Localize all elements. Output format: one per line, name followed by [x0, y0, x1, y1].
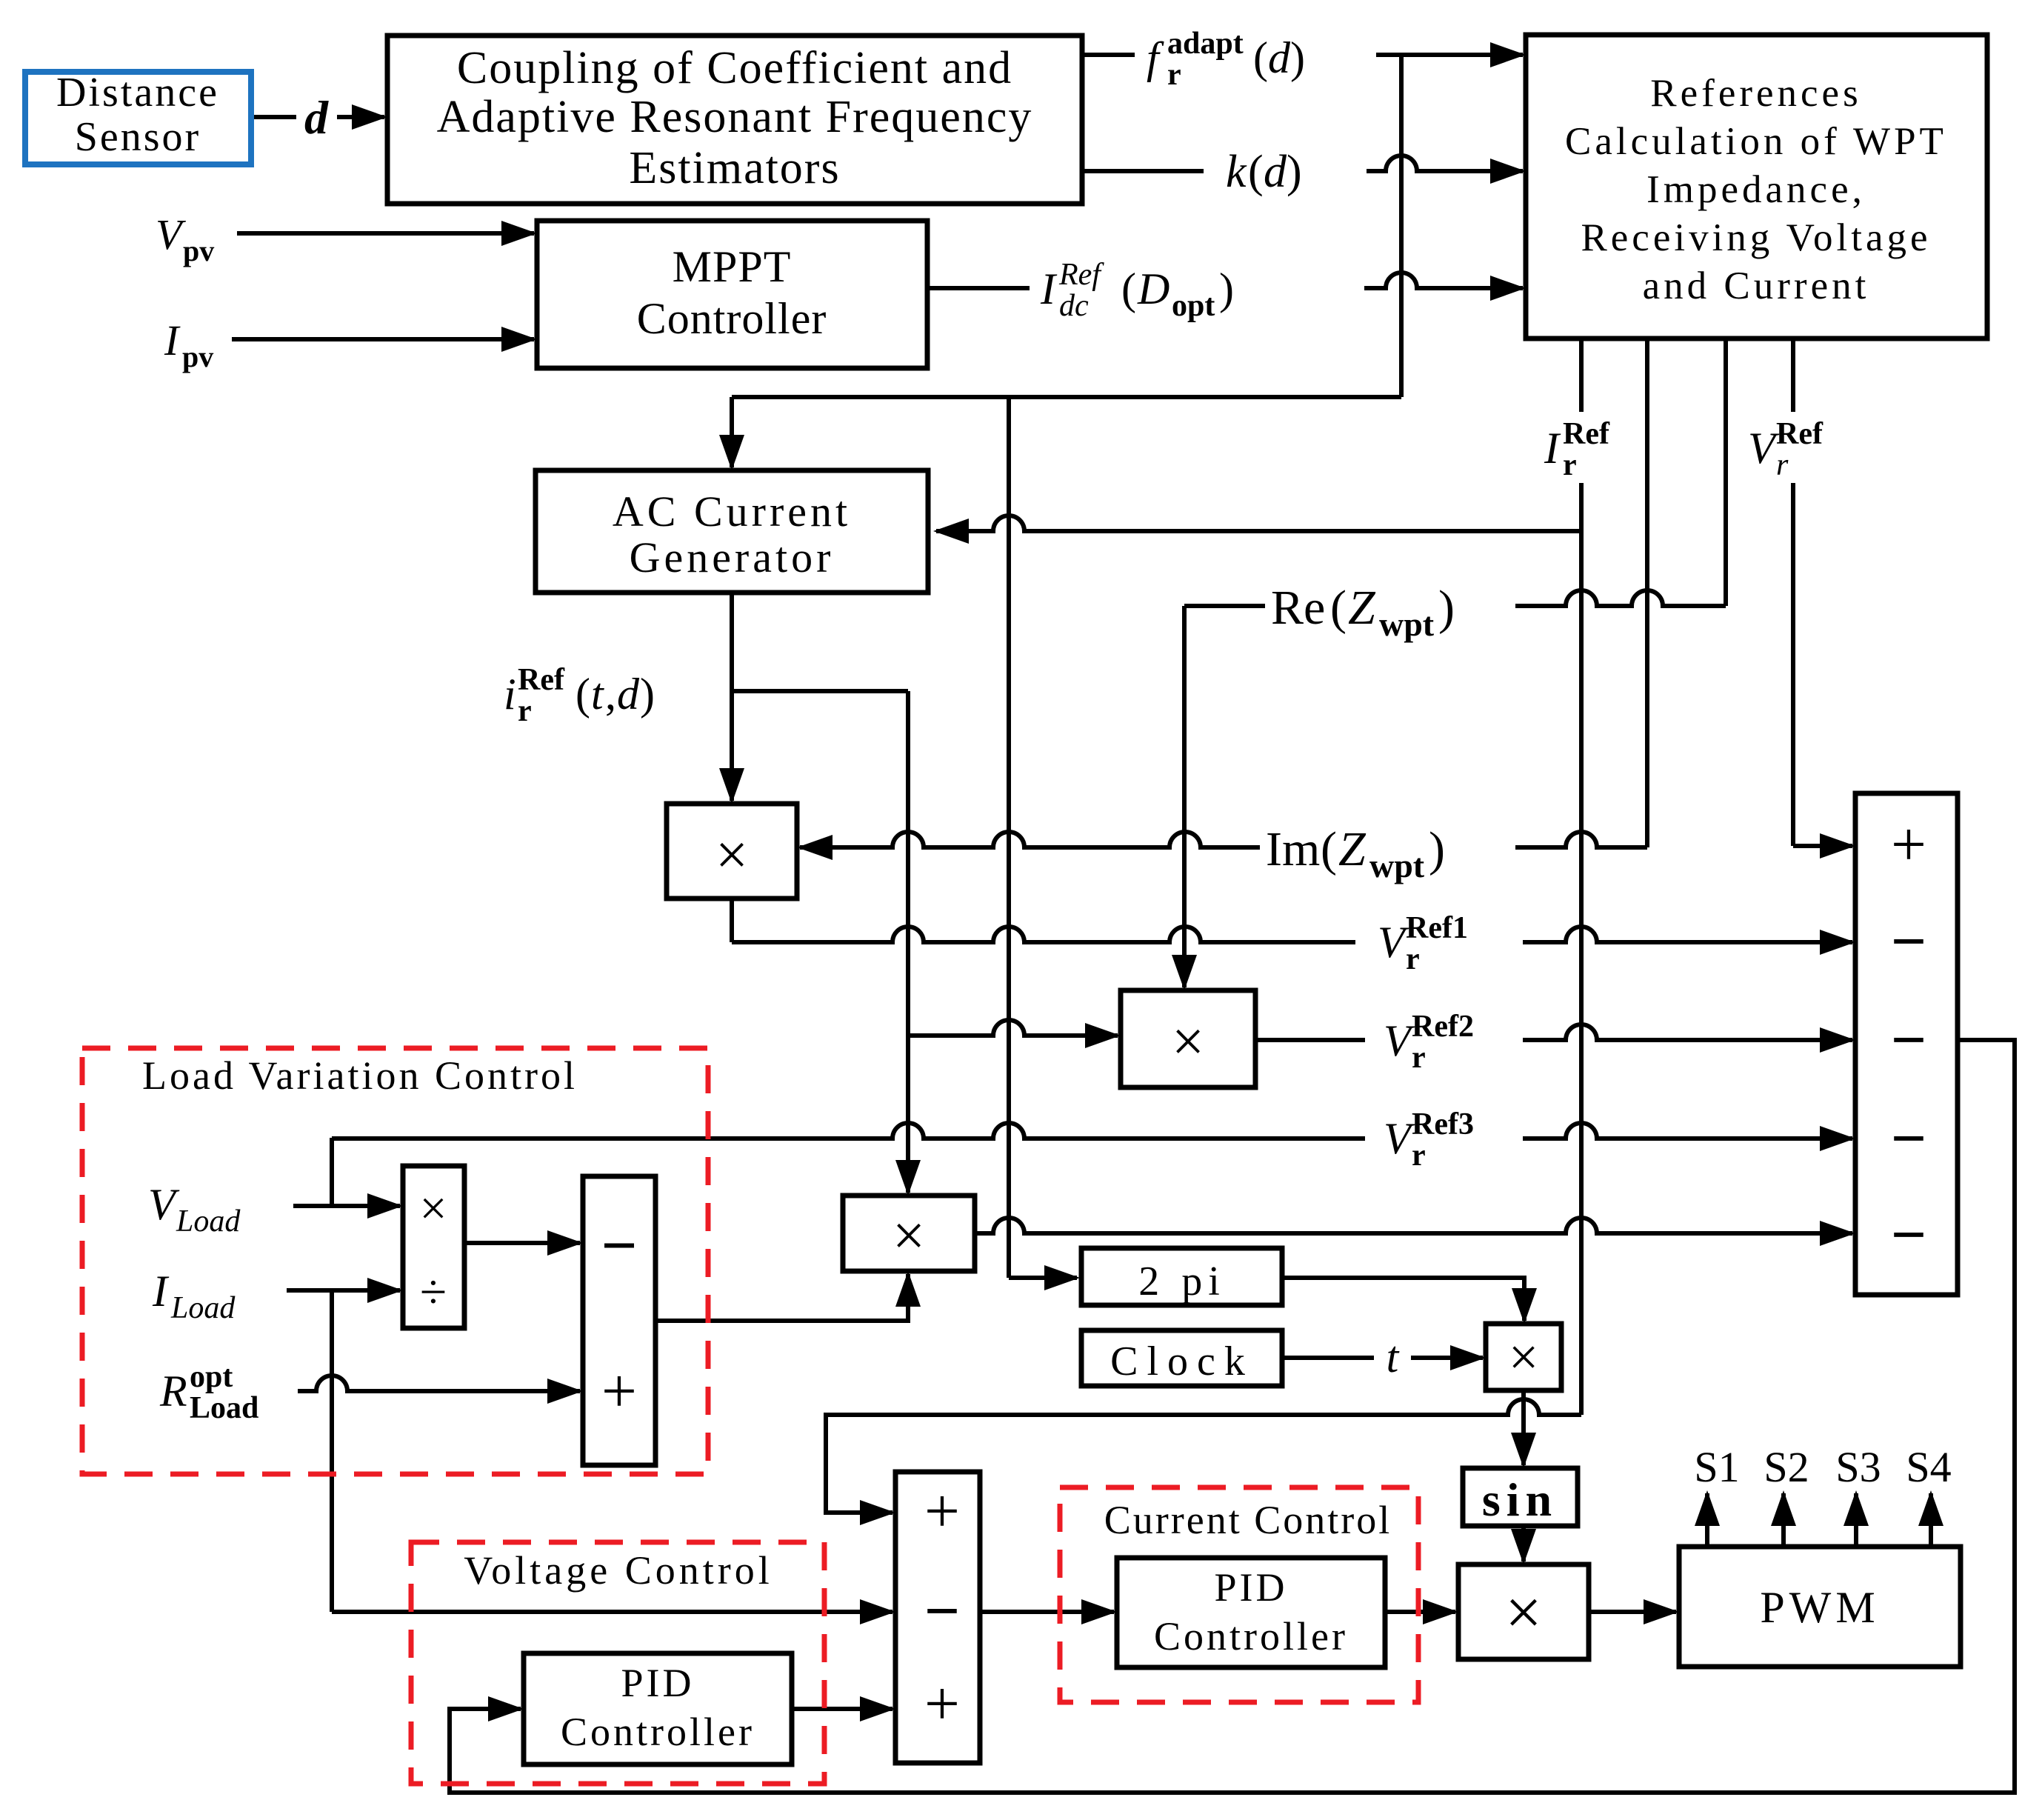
- svg-text:Impedance,: Impedance,: [1646, 168, 1866, 211]
- svg-text:S3: S3: [1835, 1443, 1881, 1491]
- svg-text:Ref: Ref: [518, 663, 565, 697]
- svg-text:Ref: Ref: [1776, 417, 1824, 451]
- svg-text:×: ×: [1509, 1327, 1539, 1387]
- svg-text:): ): [640, 670, 655, 719]
- svg-text:k: k: [1226, 147, 1247, 197]
- svg-text:(: (: [1248, 147, 1264, 197]
- svg-text:dc: dc: [1059, 289, 1089, 323]
- svg-text:d: d: [304, 91, 329, 144]
- svg-text:PID: PID: [1214, 1565, 1287, 1610]
- svg-text:and Current: and Current: [1643, 264, 1870, 307]
- svg-text:+: +: [924, 1476, 960, 1546]
- svg-text:S2: S2: [1764, 1443, 1809, 1491]
- svg-text:+: +: [601, 1356, 637, 1426]
- svg-text:r: r: [518, 694, 532, 728]
- svg-text:I: I: [164, 316, 181, 364]
- svg-text:r: r: [1412, 1139, 1426, 1173]
- svg-text:S1: S1: [1694, 1443, 1739, 1491]
- svg-text:t: t: [1387, 1333, 1400, 1381]
- svg-text:(: (: [1253, 33, 1268, 82]
- svg-text:r: r: [1563, 448, 1577, 482]
- svg-text:Current Control: Current Control: [1104, 1498, 1392, 1542]
- svg-text:Receiving Voltage: Receiving Voltage: [1581, 216, 1931, 259]
- svg-text:d: d: [617, 670, 640, 719]
- svg-text:wpt: wpt: [1379, 605, 1435, 643]
- svg-text:r: r: [1776, 448, 1789, 482]
- svg-text:wpt: wpt: [1369, 847, 1425, 884]
- svg-text:pv: pv: [183, 234, 214, 267]
- svg-text:Z: Z: [1338, 822, 1367, 876]
- svg-text:AC Current: AC Current: [613, 487, 851, 536]
- svg-text:Ref1: Ref1: [1406, 911, 1468, 945]
- svg-text:Distance: Distance: [56, 70, 219, 116]
- svg-text:(: (: [575, 670, 590, 719]
- svg-text:÷: ÷: [420, 1265, 447, 1319]
- svg-text:−: −: [601, 1210, 637, 1281]
- svg-text:Ref: Ref: [1563, 417, 1610, 451]
- svg-text:I: I: [152, 1267, 170, 1316]
- svg-text:r: r: [1412, 1041, 1426, 1075]
- svg-text:×: ×: [419, 1181, 447, 1236]
- svg-text:Controller: Controller: [1154, 1614, 1348, 1659]
- svg-text:Load: Load: [176, 1204, 241, 1239]
- svg-text:): ): [1438, 581, 1455, 635]
- svg-text:Load Variation Control: Load Variation Control: [142, 1053, 578, 1098]
- svg-text:V: V: [1378, 918, 1409, 967]
- svg-text:): ): [1429, 822, 1445, 876]
- svg-text:−: −: [1891, 1104, 1926, 1173]
- svg-text:Z: Z: [1348, 581, 1376, 635]
- svg-text:Ref: Ref: [1058, 258, 1104, 292]
- svg-text:adapt: adapt: [1167, 27, 1244, 61]
- svg-text:d: d: [1268, 33, 1291, 82]
- svg-text:pv: pv: [182, 340, 213, 373]
- svg-text:r: r: [1406, 942, 1420, 976]
- svg-text:−: −: [1891, 907, 1926, 976]
- svg-text:V: V: [1384, 1016, 1415, 1065]
- svg-text:Load: Load: [170, 1291, 236, 1325]
- svg-text:Ref3: Ref3: [1412, 1107, 1474, 1141]
- svg-text:×: ×: [892, 1203, 925, 1267]
- svg-text:I: I: [1040, 264, 1058, 313]
- svg-text:Sensor: Sensor: [75, 114, 201, 160]
- svg-text:+: +: [1891, 810, 1926, 879]
- svg-text:2 pi: 2 pi: [1138, 1259, 1226, 1304]
- svg-text:PWM: PWM: [1760, 1583, 1879, 1632]
- svg-text:Controller: Controller: [637, 294, 827, 343]
- svg-text:×: ×: [1505, 1577, 1542, 1649]
- svg-text:PID: PID: [621, 1661, 694, 1705]
- svg-text:sin: sin: [1482, 1473, 1558, 1526]
- svg-text:Re: Re: [1271, 581, 1325, 635]
- svg-text:Ref2: Ref2: [1412, 1010, 1474, 1044]
- svg-text:V: V: [1748, 424, 1780, 473]
- svg-text:+: +: [924, 1669, 960, 1739]
- svg-text:×: ×: [715, 822, 748, 887]
- svg-text:,: ,: [605, 670, 616, 719]
- svg-text:Voltage Control: Voltage Control: [464, 1548, 773, 1593]
- svg-text:V: V: [148, 1180, 180, 1229]
- svg-text:(: (: [1121, 264, 1136, 313]
- svg-text:V: V: [1384, 1114, 1415, 1163]
- svg-text:(: (: [1321, 822, 1337, 876]
- svg-text:D: D: [1137, 264, 1170, 313]
- svg-text:opt: opt: [190, 1360, 233, 1394]
- svg-text:Clock: Clock: [1110, 1339, 1254, 1384]
- svg-text:Estimators: Estimators: [629, 143, 840, 193]
- svg-text:I: I: [1544, 424, 1561, 473]
- svg-text:t: t: [591, 670, 604, 719]
- svg-text:): ): [1287, 147, 1302, 197]
- svg-text:R: R: [159, 1367, 187, 1416]
- svg-text:−: −: [924, 1576, 960, 1646]
- svg-text:−: −: [1891, 1005, 1926, 1075]
- svg-text:Load: Load: [190, 1391, 258, 1425]
- svg-text:Im: Im: [1266, 822, 1320, 876]
- svg-text:MPPT: MPPT: [673, 242, 792, 291]
- svg-text:(: (: [1330, 581, 1347, 635]
- svg-text:Coupling of Coefficient and: Coupling of Coefficient and: [457, 43, 1012, 93]
- svg-text:×: ×: [1172, 1009, 1204, 1073]
- svg-text:S4: S4: [1906, 1443, 1951, 1491]
- svg-text:i: i: [504, 670, 516, 719]
- svg-text:opt: opt: [1172, 289, 1215, 323]
- svg-text:d: d: [1264, 147, 1287, 197]
- svg-text:−: −: [1891, 1200, 1926, 1270]
- svg-text:Calculation of WPT: Calculation of WPT: [1565, 120, 1947, 163]
- svg-text:Generator: Generator: [630, 533, 835, 581]
- svg-text:): ): [1290, 33, 1305, 82]
- svg-text:Controller: Controller: [561, 1710, 755, 1754]
- svg-text:r: r: [1167, 58, 1181, 92]
- svg-text:): ): [1219, 264, 1234, 313]
- svg-text:References: References: [1650, 72, 1861, 115]
- svg-text:Adaptive Resonant Frequency: Adaptive Resonant Frequency: [437, 92, 1033, 142]
